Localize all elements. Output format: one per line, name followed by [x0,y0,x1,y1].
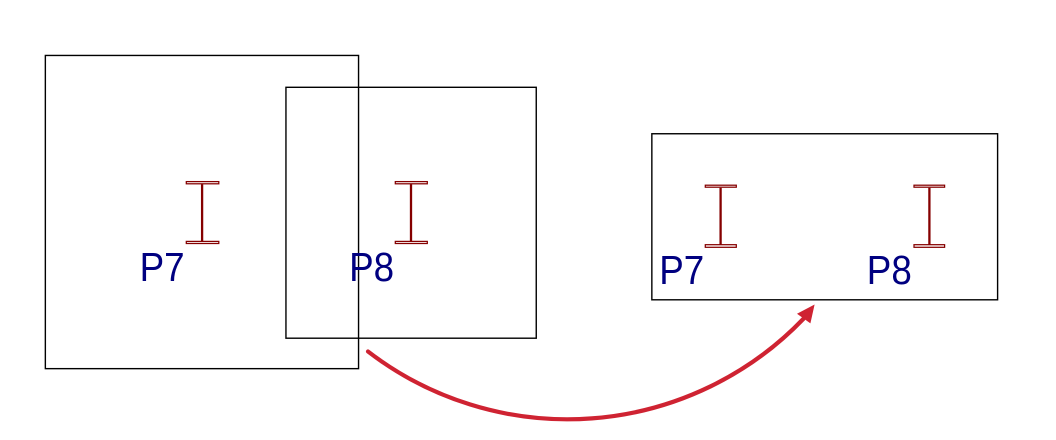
merged wall outline rectangle (right) [652,134,998,300]
column symbol P8 left: web [410,184,412,241]
column symbol P8 right: web [928,188,930,245]
column symbol P7 left: top flange [186,182,219,184]
column symbol P8 left: top flange [395,182,427,184]
red arrow shaft (curved) [368,319,804,420]
column symbol P8 right: top flange [914,185,945,187]
column symbol P8 right: bottom flange [914,245,945,248]
svg-text:P7: P7 [140,244,185,290]
column symbol P7 left: web [201,184,203,241]
wall outline rectangle (overlapping, around P8) [286,87,536,338]
svg-text:P7: P7 [659,247,704,293]
wall outline rectangle (left, around P7) [45,55,358,368]
column symbol P7 left: bottom flange [186,241,219,243]
column symbol P7 right: web [719,188,721,245]
red arrow head [797,305,815,324]
svg-text:P8: P8 [867,247,912,293]
column symbol P8 left: bottom flange [395,241,427,243]
column symbol P7 right: bottom flange [705,245,736,248]
svg-text:P8: P8 [349,244,394,290]
column symbol P7 right: top flange [705,185,736,187]
